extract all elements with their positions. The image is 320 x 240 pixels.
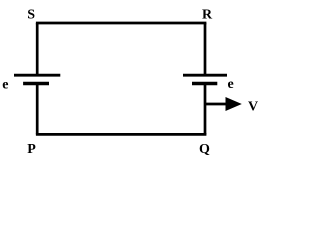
- cell e (right): long positive plate: [183, 74, 227, 77]
- wire top (S to R): [36, 22, 207, 25]
- svg-text:V: V: [248, 100, 258, 115]
- svg-text:R: R: [202, 8, 213, 23]
- cell e (left): long positive plate: [14, 74, 60, 77]
- svg-text:S: S: [27, 8, 35, 23]
- wire left upper (S down to cell): [36, 23, 39, 75]
- svg-text:e: e: [228, 77, 234, 92]
- terminal arrow V (stem): [205, 103, 228, 106]
- svg-text:Q: Q: [199, 142, 210, 157]
- wire right lower (cell down to Q): [204, 84, 207, 135]
- cell e (left): short negative plate: [23, 82, 49, 85]
- svg-text:e: e: [2, 78, 8, 93]
- terminal arrow V (head): [226, 97, 242, 111]
- wire right upper (R down to cell): [204, 23, 207, 75]
- wire left lower (cell down to P): [36, 84, 39, 135]
- svg-text:P: P: [27, 142, 36, 157]
- cell e (right): short negative plate: [192, 82, 217, 85]
- wire bottom (P to Q): [36, 133, 207, 136]
